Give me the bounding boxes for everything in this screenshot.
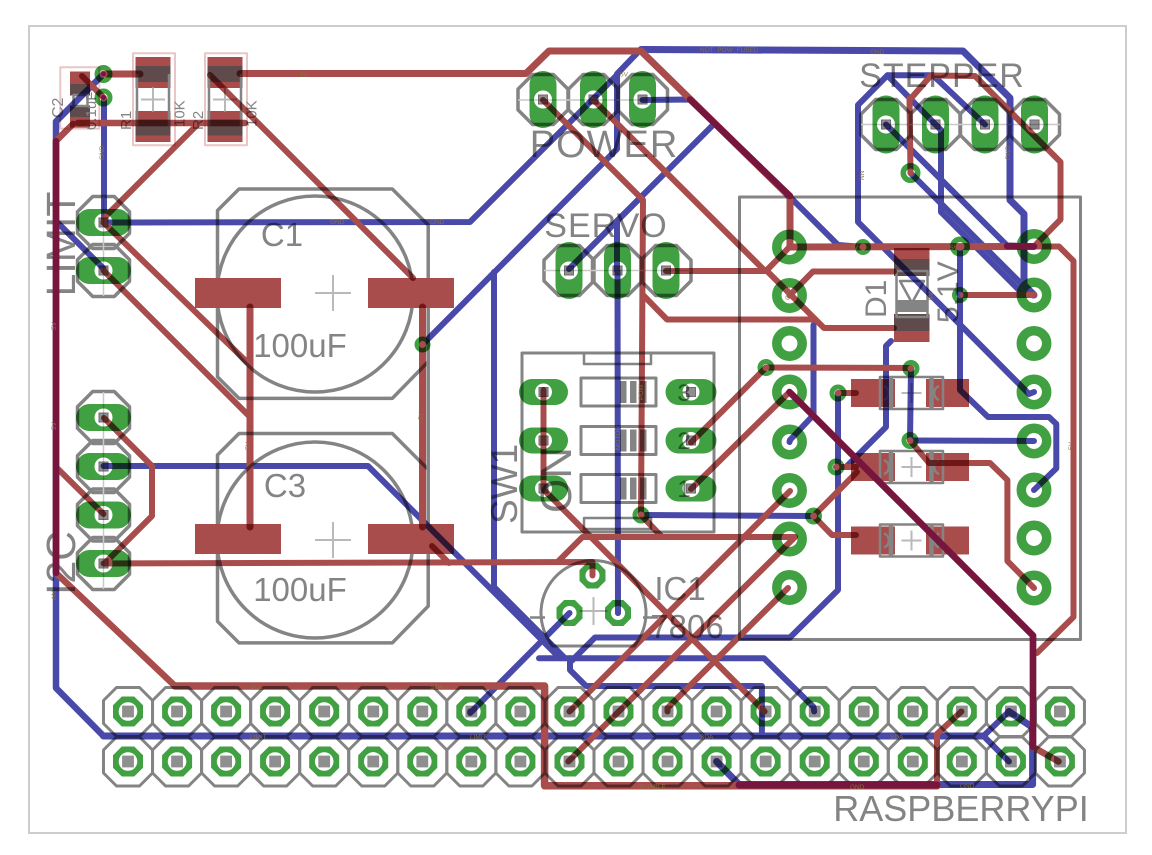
- wire blue STEPPER pad1 diag: [886, 125, 1034, 247]
- wire red rail to LIMIT pad1: [104, 123, 200, 223]
- wire red module top rail: [790, 243, 1035, 251]
- diode/resistor package row3: [851, 527, 895, 555]
- wire blue to pin19B: [984, 736, 1009, 762]
- svg-text:D1: D1: [860, 280, 893, 318]
- connector POWER pad 2: [580, 71, 607, 128]
- header pin 4 housing bottom: [251, 737, 300, 786]
- diode D1: [894, 248, 930, 276]
- POWER hairline: [518, 99, 667, 101]
- wire red branch I2C pad3: [56, 467, 104, 514]
- connector STEPPER pad 1: [873, 96, 900, 154]
- wire blue stepper col1: [858, 75, 1034, 394]
- via J (pkg row1): [832, 387, 844, 399]
- wire red ring8L to pin11T: [668, 588, 789, 712]
- STEPPER pad 3 outline: [960, 100, 1010, 150]
- module via ring L6: [777, 478, 802, 503]
- header pin 17 housing bottom: [888, 737, 937, 786]
- wire red C3 pad stub: [432, 546, 449, 563]
- IC1 pad top: [580, 563, 606, 589]
- capacitor C1 outline: [218, 189, 429, 398]
- wire red ring5L to pin10T: [570, 491, 791, 712]
- via G (module top 2): [953, 239, 968, 254]
- header pin 5 housing top: [300, 688, 349, 737]
- switch SW1 right pad 2: [666, 428, 717, 454]
- capacitor C3 right pad: [368, 524, 454, 554]
- svg-text:5V: 5V: [1068, 441, 1075, 450]
- wire red via I to SW1 row2: [691, 368, 766, 443]
- POWER pad 2 outline: [569, 75, 619, 125]
- switch SW1 outline: [522, 353, 714, 532]
- SW1 switch 2 slot: [581, 427, 656, 455]
- wire blue via E diag: [911, 173, 1034, 296]
- svg-text:GND: GND: [99, 145, 106, 160]
- POWER pad 1 outline: [518, 75, 568, 125]
- wire blue bottom rail: [539, 658, 814, 711]
- wire red POWER pad2 diag: [594, 100, 766, 271]
- via H (module mid): [954, 289, 966, 301]
- overlap bottom rail: [739, 782, 937, 789]
- header RASPBERRYPI pin 11B: [604, 747, 634, 777]
- header pin 15 housing top: [790, 688, 839, 737]
- header RASPBERRYPI pin 15B: [800, 747, 830, 777]
- SW1 switch 1 bar 3: [640, 381, 647, 403]
- resistor R2: [208, 57, 243, 88]
- STEPPER pad 4 outline: [1010, 100, 1060, 150]
- wire blue sw column: [494, 272, 565, 658]
- wire blue bottom right: [717, 712, 1033, 785]
- capacitor C3 circle: [217, 442, 413, 638]
- wire blue to STEPPER pad2: [888, 76, 936, 125]
- svg-text:3: 3: [677, 380, 690, 407]
- connector I2C pad 2: [76, 453, 131, 480]
- header pin 17 housing top: [888, 688, 937, 737]
- capacitor C1 circle: [217, 196, 413, 392]
- wire blue between rows: [104, 733, 984, 740]
- switch SW1 left pad 3: [519, 476, 568, 502]
- module via ring R1: [1021, 234, 1046, 259]
- header pin 10 housing top: [545, 688, 594, 737]
- header pin 19 housing top: [986, 688, 1035, 737]
- svg-text:5V: 5V: [245, 441, 252, 450]
- header RASPBERRYPI pin 14B: [751, 747, 781, 777]
- header RASPBERRYPI pin 18B: [947, 747, 977, 777]
- SW1 switch 2 bar 3: [640, 430, 647, 452]
- svg-text:GND: GND: [850, 784, 865, 791]
- header RASPBERRYPI pin 2T: [162, 697, 192, 727]
- svg-text:SDA: SDA: [430, 684, 444, 691]
- wire red ring4L to SW1: [691, 392, 790, 489]
- SERVO hairline: [544, 270, 691, 272]
- wire red via I rail: [766, 365, 911, 372]
- capacitor C3 origin cross: [315, 522, 351, 558]
- header pin 6 housing top: [349, 688, 398, 737]
- wire blue left vertical: [56, 74, 104, 736]
- header pin 9 housing top: [496, 688, 545, 737]
- wire blue via B down: [101, 99, 107, 223]
- wire red ring2L to D1 top: [790, 272, 895, 296]
- wire red via D to pin10B: [568, 537, 795, 762]
- SW1 switch 3 bar 1: [620, 478, 627, 500]
- wire red stepper right: [910, 76, 1061, 247]
- SW1 switch 2 bar 1: [620, 430, 627, 452]
- header pin 19 housing bottom: [986, 737, 1035, 786]
- via F (module top 1): [857, 241, 869, 253]
- svg-text:5V: 5V: [928, 291, 935, 300]
- module via ring L2: [777, 283, 802, 308]
- header RASPBERRYPI pin 6T: [358, 697, 388, 727]
- junction via B dot: [101, 95, 106, 100]
- svg-text:SERVO: SERVO: [544, 207, 667, 245]
- wire red via L to pad3L: [814, 516, 857, 535]
- wire red via N diag: [910, 441, 1034, 589]
- module via ring L7: [777, 526, 802, 551]
- header RASPBERRYPI pin 9B: [505, 747, 535, 777]
- capacitor C1 origin cross: [315, 275, 351, 311]
- via E (stepper): [903, 166, 918, 181]
- svg-text:GND: GND: [1005, 145, 1012, 160]
- wire red C1-C3 left: [247, 307, 254, 527]
- wire GND POWER pad3 to module: [643, 100, 864, 248]
- header RASPBERRYPI pin 17B: [898, 747, 928, 777]
- capacitor neck: [426, 362, 430, 470]
- module via ring R4: [1021, 379, 1046, 404]
- wire blue mid branch: [570, 658, 762, 736]
- via K (pkg row2): [830, 461, 842, 473]
- module via ring R3: [1021, 331, 1046, 356]
- svg-text:5V: 5V: [300, 72, 309, 79]
- header pin 10 housing bottom: [545, 737, 594, 786]
- header RASPBERRYPI pin 14T: [751, 697, 781, 727]
- connector STEPPER pad 3: [972, 96, 999, 154]
- wire red SW1 left col: [541, 390, 547, 489]
- header RASPBERRYPI pin 12B: [653, 747, 683, 777]
- header RASPBERRYPI pin 3T: [211, 697, 241, 727]
- header pin 7 housing top: [398, 688, 447, 737]
- wire GND branch to SERVO: [617, 125, 713, 271]
- header pin 20 housing top: [1035, 688, 1084, 737]
- header RASPBERRYPI pin 16B: [849, 747, 879, 777]
- via B (top-left 2): [97, 91, 110, 104]
- SW1 switch 2 bar 2: [630, 430, 637, 452]
- svg-text:GND: GND: [960, 783, 975, 790]
- wire red via D stub: [641, 515, 662, 537]
- SERVO pad 1 outline: [544, 246, 594, 296]
- header pin 18 housing top: [937, 688, 986, 737]
- svg-text:SW1: SW1: [484, 444, 525, 524]
- IC1 pad right: [605, 600, 631, 626]
- I2C hairline: [103, 392, 105, 589]
- wire red R bottom rail: [78, 120, 245, 127]
- svg-text:100uF: 100uF: [253, 571, 347, 608]
- header RASPBERRYPI pin 1T: [113, 697, 143, 727]
- header RASPBERRYPI pin 7T: [407, 697, 437, 727]
- wire red via B to C2: [82, 76, 104, 98]
- wire red via L jog: [814, 472, 858, 516]
- connector LIMIT pad 2: [76, 257, 131, 284]
- wire blue via D east: [646, 515, 814, 516]
- header pin 13 housing top: [692, 688, 741, 737]
- overlap module diag: [790, 392, 1034, 747]
- switch SW1 left pad 1: [519, 379, 568, 405]
- via A (top-left 1): [97, 68, 110, 81]
- SW1 switch 1 bar 1: [620, 381, 627, 403]
- module via ring R5: [1021, 428, 1046, 453]
- header pin 16 housing top: [839, 688, 888, 737]
- via D (SW1 bottom): [635, 509, 647, 521]
- wire blue stepper top jog: [888, 72, 934, 78]
- resistor R1: [136, 57, 171, 88]
- wire red ring1R east: [1034, 247, 1074, 654]
- switch SW1 left pad 2: [519, 428, 568, 454]
- header RASPBERRYPI pin 7B: [407, 747, 437, 777]
- via I (left mid): [760, 362, 772, 374]
- header pin 1 housing top: [104, 688, 153, 737]
- header pin 8 housing top: [447, 688, 496, 737]
- via L (pkg row3): [808, 510, 820, 522]
- header pin 15 housing bottom: [790, 737, 839, 786]
- wire red LIMIT pad1 diag: [104, 223, 251, 366]
- connector LIMIT pad 1: [76, 209, 131, 236]
- via N (D1 col 2): [904, 435, 916, 447]
- header RASPBERRYPI pin 15T: [800, 697, 830, 727]
- capacitor C3 left pad: [195, 524, 281, 554]
- switch SW1 right pad 3: [666, 476, 717, 502]
- wire red SW1 to pin13T: [545, 491, 765, 712]
- svg-text:5V: 5V: [950, 245, 959, 252]
- header RASPBERRYPI pin 18T: [947, 697, 977, 727]
- header RASPBERRYPI pin 6B: [358, 747, 388, 777]
- LIMIT hairline: [103, 197, 105, 296]
- SW1 switch 1 slot: [581, 378, 656, 406]
- header RASPBERRYPI pin 12T: [653, 697, 683, 727]
- header RASPBERRYPI pin 4B: [260, 747, 290, 777]
- POWER pad 3 outline: [618, 75, 668, 125]
- STEPPER hairline: [861, 124, 1060, 126]
- wire red branch via641 north: [643, 295, 814, 320]
- svg-text:I2C: I2C: [38, 531, 84, 595]
- header RASPBERRYPI pin 9T: [505, 697, 535, 727]
- wire red via J to pad: [838, 390, 856, 396]
- svg-text:5V: 5V: [418, 411, 425, 420]
- svg-text:GND: GND: [785, 285, 792, 300]
- SW1 switch 1 bar 2: [630, 381, 637, 403]
- wire GND power corner to via C: [423, 49, 642, 345]
- wire red POWER pad1 diag: [543, 100, 643, 515]
- header RASPBERRYPI pin 20T: [1045, 697, 1075, 727]
- wire red LIMIT pad2 diag: [104, 271, 251, 418]
- capacitor C1 left pad: [195, 278, 281, 308]
- svg-text:MOTOR: MOTOR: [615, 426, 622, 450]
- SERVO pad 2 outline: [593, 246, 643, 296]
- header pin 14 housing top: [741, 688, 790, 737]
- svg-text:SCL: SCL: [250, 684, 263, 691]
- wire red servo3 to D1 bot: [666, 271, 894, 328]
- connector STEPPER pad 4: [1021, 96, 1048, 154]
- switch SW1 right pad 1: [666, 379, 717, 405]
- wire blue to pin19T: [984, 712, 1009, 737]
- wire red via H east: [963, 292, 1034, 298]
- wire blue via J column: [572, 393, 838, 661]
- header pin 2 housing top: [153, 688, 202, 737]
- connector STEPPER pad 2: [922, 96, 949, 154]
- wire red module bottom: [790, 392, 1059, 762]
- wire blue STEPPER pad2 down: [936, 125, 1035, 296]
- wire red stepper via E: [910, 98, 911, 173]
- capacitor C3 outline: [218, 434, 429, 643]
- svg-text:GND: GND: [870, 49, 885, 56]
- I2C pad 2 outline: [78, 441, 130, 493]
- module via ring R8: [1021, 575, 1046, 600]
- STEPPER pad 1 outline: [861, 100, 911, 150]
- module via ring L3: [777, 331, 802, 356]
- header pin 18 housing bottom: [937, 737, 986, 786]
- header RASPBERRYPI pin 19B: [996, 747, 1026, 777]
- SW1 switch 3 bar 3: [640, 478, 647, 500]
- svg-text:RASPBERRYPI: RASPBERRYPI: [833, 788, 1088, 829]
- STEPPER pad 2 outline: [911, 100, 961, 150]
- module via ring L1: [777, 234, 802, 259]
- capacitor C2: [70, 72, 90, 85]
- wire blue via I col: [790, 325, 814, 442]
- wire GND top rail: [643, 50, 1034, 296]
- svg-text:5V: 5V: [620, 72, 629, 79]
- header RASPBERRYPI pin 2B: [162, 747, 192, 777]
- header pin 14 housing bottom: [741, 737, 790, 786]
- wire red I2C pad1 jog: [104, 418, 152, 562]
- I2C pad 4 outline: [78, 538, 130, 590]
- svg-text:100uF: 100uF: [253, 327, 347, 364]
- header pin 5 housing bottom: [300, 737, 349, 786]
- wire blue to STEPPER pad3: [933, 75, 985, 124]
- header RASPBERRYPI pin 17T: [898, 697, 928, 727]
- wire red C2 to left vertical: [56, 124, 175, 686]
- wire blue D1 to via K: [836, 341, 891, 467]
- via C (C1 right): [417, 339, 429, 351]
- header RASPBERRYPI pin 16T: [849, 697, 879, 727]
- header pin 8 housing bottom: [447, 737, 496, 786]
- header pin 6 housing bottom: [349, 737, 398, 786]
- header pin 3 housing bottom: [202, 737, 251, 786]
- header pin 9 housing bottom: [496, 737, 545, 786]
- svg-text:SDA: SDA: [700, 734, 714, 741]
- wire GND branch SERVO pad1: [569, 198, 640, 269]
- wire red R2 to C1 pad: [210, 75, 413, 278]
- junction via A dot: [101, 72, 106, 77]
- header RASPBERRYPI pin 11T: [604, 697, 634, 727]
- wire red rail y537: [558, 537, 796, 562]
- header pin 3 housing top: [202, 688, 251, 737]
- wire blue IC1 right col: [615, 610, 621, 616]
- I2C pad 3 outline: [78, 489, 130, 541]
- header RASPBERRYPI pin 13B: [702, 747, 732, 777]
- connector SERVO pad 2: [604, 242, 631, 299]
- wire red ring1L diag: [766, 247, 790, 271]
- header pin 12 housing bottom: [643, 737, 692, 786]
- header pin 11 housing bottom: [594, 737, 643, 786]
- svg-text:C3: C3: [264, 467, 306, 504]
- svg-text:5V: 5V: [51, 421, 58, 430]
- header RASPBERRYPI pin 3B: [211, 747, 241, 777]
- wire blue via N east: [911, 438, 1034, 445]
- IC1 side ticks: [530, 616, 658, 619]
- module via ring L5: [777, 429, 802, 454]
- header pin 20 housing bottom: [1035, 737, 1084, 786]
- overlap power diag: [690, 100, 790, 197]
- header pin 4 housing top: [251, 688, 300, 737]
- wire blue IC1 left to header: [470, 613, 569, 713]
- module via ring R7: [1021, 525, 1046, 550]
- connector POWER pad 3: [629, 71, 656, 128]
- header pin 13 housing bottom: [692, 737, 741, 786]
- diode/resistor package row2: [851, 453, 895, 481]
- wire blue SERVO pad2 to IC1: [615, 271, 622, 613]
- svg-text:5V: 5V: [51, 321, 58, 330]
- wire 5V mid rail: [104, 562, 593, 576]
- header RASPBERRYPI pin 1B: [113, 747, 143, 777]
- LIMIT pad 1 outline: [78, 197, 130, 249]
- overlap left vertical: [53, 141, 60, 573]
- svg-text:POW: POW: [638, 384, 645, 400]
- SERVO pad 3 outline: [641, 246, 691, 296]
- connector I2C pad 3: [76, 502, 131, 529]
- svg-text:5V: 5V: [850, 245, 859, 252]
- module via ring L8: [777, 575, 802, 600]
- header RASPBERRYPI pin 19T: [996, 697, 1026, 727]
- header RASPBERRYPI pin 13T: [702, 697, 732, 727]
- wire red header ring: [175, 686, 937, 786]
- connector I2C pad 1: [76, 404, 131, 431]
- header pin 11 housing top: [594, 688, 643, 737]
- header pin 1 housing bottom: [104, 737, 153, 786]
- svg-text:NN: NN: [859, 170, 866, 180]
- wire red via K to pad: [836, 464, 856, 470]
- svg-text:GND: GND: [330, 219, 345, 226]
- header RASPBERRYPI pin 4T: [260, 697, 290, 727]
- header RASPBERRYPI pin 10B: [555, 747, 585, 777]
- module outline: [740, 197, 1081, 640]
- via M (D1 col): [905, 363, 917, 375]
- svg-text:AN: AN: [51, 591, 58, 600]
- wire red C1-C3 right: [419, 307, 426, 527]
- header pin 12 housing top: [643, 688, 692, 737]
- wire blue via M to N: [910, 369, 911, 441]
- header pin 7 housing bottom: [398, 737, 447, 786]
- svg-text:ENABLE: ENABLE: [640, 784, 666, 791]
- connector SERVO pad 1: [556, 242, 583, 299]
- header RASPBERRYPI pin 10T: [555, 697, 585, 727]
- LIMIT pad 2 outline: [78, 245, 130, 297]
- wire red to pin17T: [937, 712, 961, 786]
- diode/resistor package row1: [851, 379, 895, 407]
- header RASPBERRYPI pin 8B: [456, 747, 486, 777]
- wire 5V top rail: [104, 71, 141, 78]
- overlap ring1R stub: [1007, 243, 1034, 250]
- switch SW1 bottom notch: [584, 518, 651, 529]
- connector POWER pad 1: [530, 71, 557, 128]
- svg-text:NOT_POW_FUSED: NOT_POW_FUSED: [700, 47, 759, 54]
- IC1 outline: [541, 560, 646, 646]
- SW1 switch 3 slot: [581, 475, 656, 503]
- module via ring L4: [777, 379, 802, 404]
- svg-text:LIMIT: LIMIT: [470, 734, 487, 741]
- svg-text:SDA: SDA: [890, 734, 904, 741]
- wire GND LIMIT pad1 east: [104, 75, 618, 223]
- header RASPBERRYPI pin 5T: [309, 697, 339, 727]
- header RASPBERRYPI pin 5B: [309, 747, 339, 777]
- connector I2C pad 4: [76, 550, 131, 577]
- wire blue to LIMIT pad2: [56, 221, 104, 271]
- SW1 switch 3 bar 2: [630, 478, 637, 500]
